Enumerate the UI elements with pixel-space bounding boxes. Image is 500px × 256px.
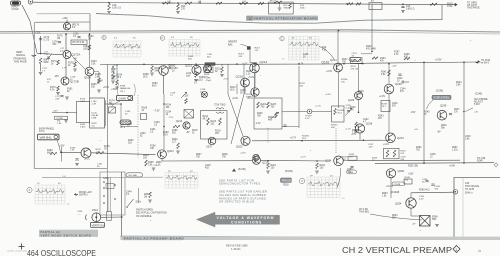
dark pill on bus (205, 62, 216, 65)
label R186 b (70, 147, 76, 151)
resistor R186 (151, 66, 154, 72)
resistor R192b (372, 57, 378, 59)
svg-text:.001: .001 (52, 44, 57, 46)
svg-text:47µH: 47µH (206, 80, 212, 82)
svg-text:THIS PAGE: THIS PAGE (14, 61, 27, 64)
wire Q229 collector (358, 64, 360, 92)
junction x464 aux (463, 111, 465, 113)
junction Q239 rail bus (388, 63, 390, 65)
label C242 (397, 78, 403, 83)
circled 1 marker (280, 36, 284, 40)
label grat5 a (114, 38, 118, 40)
transistor (355, 124, 364, 133)
svg-text:(C245): (C245) (475, 94, 482, 96)
resistor R217 (219, 118, 222, 125)
svg-text:VOLTAGE & WAVEFORM: VOLTAGE & WAVEFORM (217, 216, 275, 220)
label grat4 1V (292, 37, 295, 39)
label C218 (205, 165, 211, 170)
transistor Q229 (355, 92, 363, 100)
label -7.5V (168, 117, 174, 119)
svg-text:0.68-1.5: 0.68-1.5 (406, 9, 415, 11)
label Q172A (72, 53, 81, 57)
svg-text:C43: C43 (465, 183, 470, 185)
label Q202 (236, 145, 243, 149)
svg-text:1µH: 1µH (186, 76, 191, 78)
svg-text:660k: 660k (47, 153, 53, 155)
capacitor C171 (60, 96, 63, 98)
svg-text:Q248: Q248 (398, 169, 405, 173)
ground R170 (115, 87, 119, 89)
label R214 (203, 116, 209, 121)
ground C179 (64, 120, 68, 122)
label -1.3V (255, 123, 261, 125)
junction R221 bus (267, 160, 269, 162)
svg-text:Q238: Q238 (366, 123, 373, 126)
svg-text:~7.5V: ~7.5V (154, 111, 161, 113)
label R168 (95, 74, 101, 79)
label R19x (322, 47, 327, 52)
resistor R198 (404, 57, 410, 59)
diode pair CR243 (401, 80, 409, 84)
junction R10 (162, 2, 164, 4)
pointer curve aux (466, 108, 474, 112)
svg-text:1.7V: 1.7V (62, 68, 67, 70)
label Q244 (397, 136, 404, 140)
svg-text:-8V: -8V (412, 224, 416, 226)
label Q214 (176, 120, 183, 123)
label -8V center (186, 132, 190, 134)
pointer graticule4 to Q191 (319, 46, 334, 59)
wire Q248 to Q254 (390, 178, 392, 198)
svg-text:+0.6V: +0.6V (325, 94, 331, 96)
label grat6 a (171, 37, 175, 39)
svg-text:(C245): (C245) (436, 91, 443, 93)
arrow vert signal (32, 55, 37, 57)
label RT176 2.5k (73, 42, 86, 44)
svg-text:Q245: Q245 (440, 104, 447, 108)
registration cross (19, 244, 25, 250)
wire main signal bus mid (100, 63, 340, 66)
label Q204 (167, 149, 174, 153)
label C255 (419, 196, 425, 200)
label grat1 TP (168, 171, 171, 173)
svg-text:RANGES OF PARTS OUTLINED: RANGES OF PARTS OUTLINED (219, 196, 266, 200)
wire x372 drop (371, 10, 373, 52)
svg-text:PRESET: PRESET (282, 178, 293, 182)
junction top rail Q164 (89, 33, 91, 35)
label TO J510 (481, 59, 491, 65)
ground R344 (148, 200, 152, 202)
triangle marker (232, 169, 236, 172)
svg-text:4-0.5: 4-0.5 (60, 50, 66, 52)
wire board edge to DL45 (52, 112, 77, 114)
ground R199 (111, 81, 115, 83)
wire to Q187 base (60, 151, 81, 153)
label R184b (80, 124, 86, 128)
svg-text:5 DIV: 5 DIV (474, 104, 480, 106)
wire x164 vertical (163, 94, 165, 150)
svg-text:Q229: Q229 (348, 99, 355, 102)
wire R175 to ground (40, 64, 42, 72)
label TP229 (305, 116, 312, 120)
label R175 (44, 60, 50, 65)
label grat2 50 (58, 183, 61, 185)
arrow glyph right row (414, 59, 417, 62)
svg-text:RT176 2.5k: RT176 2.5k (73, 42, 86, 44)
wire into delay line (89, 94, 91, 98)
junction x164 y104 (163, 103, 165, 105)
label R176 (57, 36, 63, 41)
ground R169 (97, 90, 101, 92)
svg-text:470 1W: 470 1W (351, 68, 359, 70)
wire Q222 collector (254, 64, 256, 88)
label R226 (257, 113, 263, 118)
svg-text:50Ω: 50Ω (432, 219, 437, 221)
resistor R177 (57, 60, 60, 65)
transistor (192, 65, 201, 74)
svg-text:Q164: Q164 (84, 76, 91, 80)
box (254, 98, 282, 129)
label gnd small (153, 165, 158, 167)
label R289 (419, 190, 430, 192)
label -0.2V (351, 134, 357, 136)
label R227 value (342, 59, 348, 64)
scan artifacts (58, 40, 471, 231)
inverter circle X second (202, 92, 208, 98)
label +15V Q150 (62, 17, 68, 20)
wire network to TP (282, 111, 307, 113)
wire U8A out (361, 53, 372, 55)
label R229 col (300, 83, 306, 87)
label Q248 (398, 169, 405, 173)
voltage and waveform conditions banner arrow (197, 212, 280, 227)
pill P190 (349, 58, 361, 62)
label 1.7V (62, 68, 67, 70)
label +1.7V (84, 159, 90, 161)
label C17 (60, 48, 66, 52)
label C14 (242, 1, 248, 5)
svg-text:→: → (414, 59, 417, 62)
svg-text:86.6: 86.6 (152, 86, 157, 88)
wire output bus right (340, 62, 475, 64)
label C184 (127, 124, 133, 128)
ground C20 (401, 11, 405, 13)
svg-text:36.5: 36.5 (143, 77, 148, 79)
svg-text:R148: R148 (477, 161, 483, 163)
box (184, 110, 194, 119)
label R226b (341, 79, 348, 83)
pointer graticule3 to Q234 (337, 168, 341, 188)
svg-text:-1.3V: -1.3V (255, 123, 261, 125)
label R238 (283, 185, 289, 187)
label +0.8V (449, 166, 456, 168)
label R215 b (239, 54, 245, 58)
wire Q200 emitter (163, 75, 165, 94)
wire input diagonal to gate node (22, 5, 37, 53)
svg-text:47k 1/4W: 47k 1/4W (366, 49, 377, 51)
adjust box R245 preset (blue outlined) (432, 95, 451, 99)
svg-text:Q222: Q222 (247, 96, 254, 100)
label R178c (104, 146, 110, 151)
pot R298 X box (420, 216, 431, 227)
label C186 (172, 68, 178, 73)
label R177 (51, 61, 57, 66)
box (106, 212, 111, 220)
label bar leading square (246, 16, 253, 21)
svg-text:+1.7V: +1.7V (84, 159, 90, 161)
transistor (63, 23, 70, 30)
label S344a arm (136, 202, 142, 204)
label 600 ohm 470k (447, 3, 453, 9)
wire DL out down2 (120, 113, 122, 127)
svg-text:R289 44.2: R289 44.2 (419, 190, 430, 192)
label +2.9V (435, 59, 442, 62)
label R15 (284, 5, 290, 9)
label +0.7V bus (290, 138, 297, 140)
label R250 (416, 147, 422, 152)
wire DL45 out (105, 103, 121, 105)
svg-text:R198: R198 (120, 86, 126, 88)
junction input node (40, 53, 42, 55)
label grat2 2V (67, 204, 70, 206)
resistor R18 on bus (347, 3, 353, 5)
label C191 (352, 53, 358, 57)
resistor R15 on block top (274, 1, 282, 3)
svg-text:+0.6V: +0.6V (240, 153, 246, 155)
wire Q204 to Q220 (162, 160, 252, 162)
wire VAR BAL node vertical (61, 147, 63, 162)
ground R175 (39, 73, 43, 75)
label C179B (56, 118, 63, 120)
label R200 (128, 140, 134, 145)
label 7.5V (154, 111, 161, 113)
svg-text:48.7: 48.7 (201, 97, 206, 99)
label R205 (148, 162, 154, 167)
label R208 value (204, 74, 210, 78)
svg-text:0.26-1.5: 0.26-1.5 (167, 3, 176, 5)
label C20 (406, 6, 415, 11)
svg-text:+0.7V: +0.7V (300, 157, 306, 159)
label R204 value (143, 155, 149, 160)
svg-text:5.87k: 5.87k (80, 126, 86, 128)
label R228B (338, 110, 345, 114)
svg-text:OR DEPICTED IN BLUE.: OR DEPICTED IN BLUE. (219, 200, 256, 204)
svg-text:C254B: C254B (394, 184, 401, 186)
label from R82 this page (14, 57, 27, 63)
junction x302 (301, 140, 303, 142)
capacitor C186 (168, 68, 171, 70)
svg-text:-7.5V: -7.5V (168, 117, 174, 119)
wire R178b stub (74, 59, 76, 63)
label L180 (92, 101, 98, 105)
svg-text:+1.1V: +1.1V (383, 144, 390, 146)
svg-text:Q200: Q200 (168, 63, 176, 67)
wire P344 to switch (101, 216, 123, 218)
svg-text:+0.17V: +0.17V (386, 186, 394, 188)
svg-text:Q202: Q202 (236, 145, 243, 149)
resistor (352, 59, 362, 61)
label grat3 2V (330, 176, 333, 178)
junction x464 (463, 61, 465, 63)
label R218 (215, 131, 221, 136)
svg-text:0.5-5: 0.5-5 (242, 3, 248, 5)
preset dark box R238 (281, 178, 292, 182)
label grat2 1V (37, 183, 40, 185)
svg-text:1: 1 (455, 248, 457, 252)
svg-text:5.87k: 5.87k (80, 101, 86, 103)
svg-text:+15V: +15V (183, 96, 189, 98)
label R179 (50, 87, 56, 92)
svg-text:SEE PARTS LIST FOR EARLIER: SEE PARTS LIST FOR EARLIER (219, 190, 267, 194)
vertical attenuator board label bar (247, 16, 318, 21)
resistor R224 (257, 102, 260, 108)
label +14V (392, 66, 398, 68)
transistor (251, 88, 259, 96)
label grat4 50 (309, 37, 312, 39)
wire x107 long vertical (106, 65, 108, 169)
switch arm S344a (127, 199, 134, 207)
label R225 (271, 104, 277, 109)
junction bus Q190 (195, 63, 197, 65)
label R298 (432, 217, 438, 222)
wire dashed x336 (335, 128, 337, 153)
label grat3 TP (310, 176, 313, 178)
resistor R199 (112, 73, 115, 80)
ground R13 (176, 12, 180, 14)
transistor (204, 65, 212, 73)
label C185 (125, 111, 131, 115)
svg-text:Q234: Q234 (325, 159, 332, 163)
wire (137, 95, 139, 158)
svg-text:A2 2X: A2 2X (270, 0, 276, 2)
label R239 (382, 104, 388, 108)
junction bus x299 (298, 63, 300, 65)
resistor R228B (334, 109, 337, 115)
wire switch gang b (109, 177, 111, 212)
svg-text:SEMICONDUCTOR TYPES.: SEMICONDUCTOR TYPES. (219, 182, 262, 186)
label +15V gain (108, 104, 114, 106)
junction RC left (343, 63, 345, 65)
connector P344 (85, 215, 88, 221)
ground C18 (107, 12, 111, 14)
wire top attenuator bus (33, 2, 452, 4)
C43 trigger board outline (454, 178, 500, 241)
capacitor C248 (431, 184, 434, 186)
diamond symbol title (453, 246, 460, 253)
label J20 input connector (12, 6, 20, 12)
label R235 (349, 154, 355, 158)
pot R213 (247, 46, 251, 49)
ground in block (278, 8, 282, 10)
wire Q254 collector up (410, 193, 412, 198)
label R230a (331, 125, 338, 129)
resistor R21 on bus (430, 3, 437, 5)
label R179a (80, 99, 86, 103)
junction Q224 rail (338, 30, 340, 32)
label +0.6V right (325, 94, 331, 96)
svg-text:2.2H: 2.2H (92, 103, 97, 105)
wire Q254 to C43 connector (411, 191, 453, 194)
transistor (241, 78, 250, 87)
junction VAR BAL node (61, 152, 63, 154)
label -15V right (411, 112, 416, 114)
label R17b (47, 79, 52, 83)
pill 1283 (347, 170, 357, 174)
vertical attenuator board outline (90, 5, 442, 31)
wire C228 row (282, 126, 299, 128)
resistor (173, 125, 180, 127)
svg-text:24.9: 24.9 (163, 135, 168, 137)
resistor R242 (388, 70, 391, 76)
label C201 (150, 129, 156, 134)
transistor (406, 198, 416, 208)
waveform graticule 5 (113, 41, 141, 57)
label R198c (150, 146, 156, 151)
capacitor C12 (199, 1, 201, 4)
svg-text:B190: B190 (351, 60, 357, 62)
resistor R10 on bus (163, 2, 170, 4)
label R207 (196, 154, 202, 159)
label R167 (111, 69, 117, 74)
pointer curve R245 (427, 100, 434, 109)
svg-text:P344: P344 (92, 209, 98, 212)
label R228 (268, 117, 274, 122)
ground R221 (266, 171, 270, 173)
label C178 (70, 77, 76, 81)
wire x268 dashed (267, 128, 269, 143)
label C230 (346, 105, 352, 109)
label grat5 b (133, 38, 136, 40)
wire Q234 output right (343, 159, 460, 161)
resistor R15b (289, 4, 292, 9)
label R248 (405, 177, 411, 181)
wire TP to R228B box (312, 111, 332, 113)
svg-text:CH 2: CH 2 (120, 127, 126, 129)
resistor R216 (207, 118, 210, 125)
svg-text:VAR BAL: VAR BAL (40, 136, 53, 140)
label C237 (368, 144, 374, 148)
wire Q254 emitter down (410, 209, 412, 217)
wire R170 drop (116, 64, 118, 80)
label R246 (441, 125, 447, 130)
front panel control VAR pill (120, 120, 131, 125)
wire Q172A source to Q172B (65, 59, 67, 78)
label aux probe adjust (474, 98, 488, 106)
switch contact box S10 (141, 114, 147, 120)
resistor R195 (185, 99, 188, 104)
label +15V relay (183, 96, 189, 98)
wire to R298 (411, 215, 420, 217)
wire R208 stub (208, 64, 210, 67)
label nor panel (39, 128, 54, 134)
note parts outlined blue (219, 190, 267, 204)
label +15V left (35, 33, 41, 35)
resistor R14 on bus (240, 2, 248, 4)
label R180 (47, 150, 53, 155)
label +0.6V (240, 153, 246, 155)
svg-text:+5.2V: +5.2V (248, 77, 255, 79)
label R199 (163, 132, 169, 137)
wire GAIN pointer (112, 101, 121, 107)
label R247 (454, 109, 460, 114)
resistor R178b (74, 62, 77, 67)
transistor (253, 154, 259, 160)
label R253 (382, 193, 388, 198)
ground R298 (435, 225, 439, 227)
label Q220 (262, 161, 269, 165)
label Q229 name (348, 99, 355, 102)
label Q172B (70, 80, 79, 84)
